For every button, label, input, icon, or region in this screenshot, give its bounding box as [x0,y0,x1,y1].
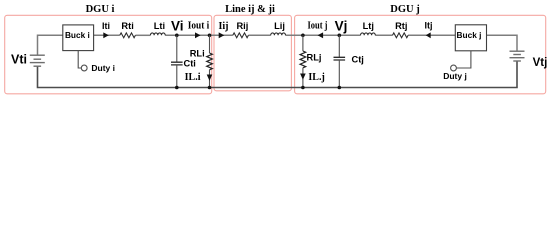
inductor Lti [150,33,165,35]
capacitor Ctj [334,57,346,60]
wire: bottom return rail [38,61,518,88]
resistor RLj [300,51,306,68]
svg-text:Iti: Iti [102,21,110,31]
wire: RLi to bottom rail [209,70,211,88]
wire: Cti to bottom rail [176,65,178,88]
capacitor Cti [171,62,183,65]
Duty j port wire [456,51,471,68]
node RLj bottom [301,86,305,90]
wire: Lij to Ltj (through nodes Vj) [286,34,361,36]
svg-text:Lij: Lij [274,21,285,31]
node Vj [338,34,342,38]
svg-text:Vtj: Vtj [533,57,548,69]
svg-text:RLi: RLi [190,49,205,59]
svg-text:DGU i: DGU i [86,4,115,15]
svg-text:Lti: Lti [154,21,165,31]
svg-text:Rtj: Rtj [395,21,407,31]
svg-text:Duty j: Duty j [443,71,467,81]
wire: Ltj to Rtj [375,34,392,36]
current arrow IL.j (down) [300,74,306,80]
svg-text:Iout j: Iout j [308,21,328,32]
battery Vti [30,55,45,66]
wire: Vi node down to Cti [176,35,178,62]
inductor Lij [271,33,286,35]
current arrow Iti [103,32,109,38]
wire: Lti to Rij (through node Vi, Iout i) [165,34,233,36]
node at RLi top [208,34,212,38]
resistor Rij [233,33,249,38]
svg-text:Vi: Vi [171,19,184,34]
inductor Ltj [361,33,376,35]
Buck i converter block [63,25,94,51]
node Vi [175,34,179,38]
DGU j enclosure box [295,15,546,94]
svg-text:Rti: Rti [121,21,133,31]
wire: RLi top stub [209,35,211,53]
current arrow Itj (left) [426,32,431,38]
Duty j terminal circle [451,65,457,71]
svg-text:Line ij & ji: Line ij & ji [225,4,275,15]
node Ctj bottom [338,86,342,90]
current arrow Iout i [195,32,201,38]
wire: Rtj to Buck j [408,34,455,36]
node RLj top [301,34,305,38]
DGU i enclosure box [5,15,212,94]
svg-text:Vj: Vj [335,19,348,34]
resistor Rti [120,33,136,38]
current arrow Iout j (left) [318,32,324,38]
node RLi bottom [208,86,212,90]
wire: Vj node down to Ctj [338,35,340,57]
svg-text:Buck i: Buck i [65,30,90,40]
Buck j converter block [455,25,486,51]
svg-text:Duty i: Duty i [91,63,115,73]
resistor RLi [207,53,213,70]
svg-text:Iij: Iij [219,21,229,32]
wire: Buck i to Rti [94,34,120,36]
wire: RLj top stub [302,35,304,51]
wire: Rij to Lij [248,34,270,36]
Duty i port wire [78,51,81,68]
wire: Rti to Lti [135,34,150,36]
wire: Ctj to bottom rail [338,60,340,88]
wire: Buck j to battery Vtj top [487,35,518,51]
svg-text:Ctj: Ctj [352,55,364,65]
svg-text:IL.i: IL.i [185,72,201,83]
svg-text:Vti: Vti [11,52,27,66]
svg-text:Iout i: Iout i [188,21,210,32]
Duty i terminal circle [81,65,87,71]
Line ij enclosure box [214,15,291,91]
current arrow Iij [219,32,225,38]
resistor Rtj [393,33,409,38]
wire: battery Vti top to Buck i [38,35,63,55]
svg-text:Buck j: Buck j [457,30,482,40]
current arrow IL.i (down) [207,75,213,81]
svg-text:IL.j: IL.j [308,72,324,83]
battery Vtj [510,51,525,61]
svg-text:DGU j: DGU j [390,4,419,15]
svg-text:Ltj: Ltj [363,21,374,31]
svg-text:Itj: Itj [425,21,433,31]
svg-text:Rij: Rij [236,21,248,31]
svg-text:RLj: RLj [307,53,322,63]
node Cti bottom [175,86,179,90]
wire: RLj to bottom rail [302,68,304,88]
svg-text:Cti: Cti [184,59,196,69]
